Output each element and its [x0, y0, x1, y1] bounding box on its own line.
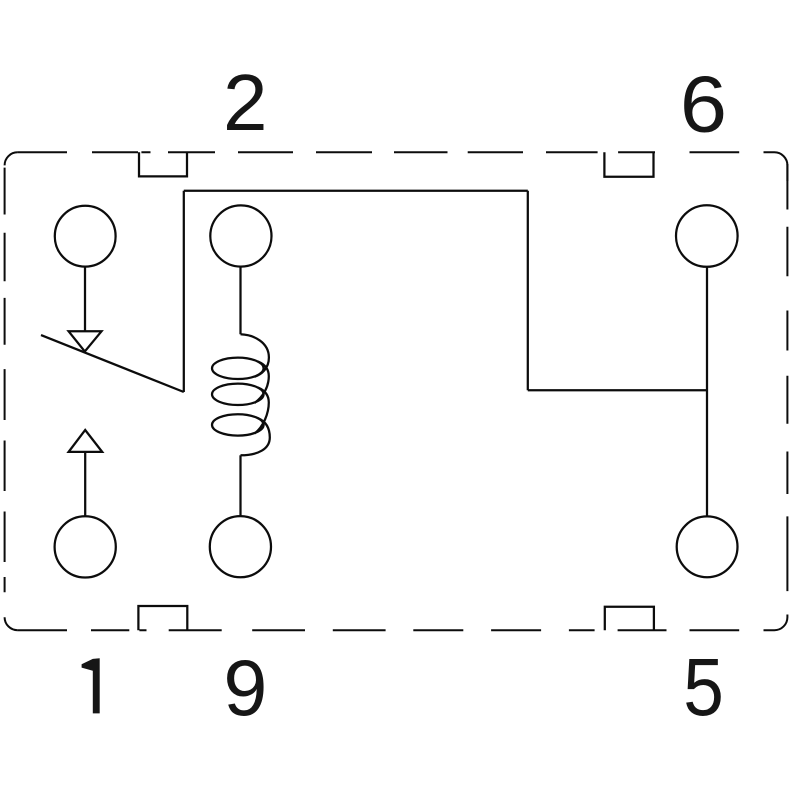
- relay outline dashed border: right edge dashes: [786, 164, 788, 591]
- coil loop 3: [212, 414, 264, 435]
- pin circle 5: [677, 516, 738, 577]
- wire: right vertical pin6 to pin5: [706, 267, 708, 517]
- arrow up (NO contact): [69, 430, 103, 452]
- arrow down (NC contact): [69, 331, 102, 351]
- relay outline dashed border: bottom edge dashes: [18, 629, 740, 631]
- relay outline dashed border: left edge dashes: [4, 168, 6, 593]
- wire: top horizontal: [184, 190, 528, 192]
- svg-text:5: 5: [683, 642, 724, 733]
- pin circle 9 (coil bottom): [210, 516, 271, 577]
- pin circle 2 (coil top): [210, 205, 271, 266]
- switch armature diagonal: [41, 335, 184, 392]
- pin circle 1: [55, 516, 116, 577]
- coil exit curve: [241, 418, 270, 455]
- svg-text:6: 6: [680, 59, 727, 148]
- coil entry curve: [241, 334, 269, 377]
- wire: stem below top-left circle: [84, 267, 86, 332]
- relay outline dashed border: corner arcs: [5, 152, 788, 630]
- wire: middle vertical: [527, 191, 529, 390]
- wire: stem above pin1 circle: [84, 452, 86, 516]
- svg-text:9: 9: [223, 643, 267, 732]
- top-left mounting notch: [139, 152, 187, 176]
- pin circle top-left (common): [55, 206, 116, 267]
- svg-text:2: 2: [223, 58, 267, 147]
- wire: switch pole vertical: [183, 191, 185, 392]
- coil loop 2: [212, 384, 264, 405]
- coil connector 1: [255, 362, 269, 403]
- coil connector 2: [255, 388, 269, 434]
- bottom-left mounting notch: [138, 606, 187, 630]
- coil loop 1: [212, 358, 264, 379]
- pin label 1: [82, 658, 100, 713]
- wire: coil bottom stem: [239, 455, 241, 516]
- wire: coil top stem: [239, 267, 241, 335]
- top-right mounting notch: [604, 152, 653, 177]
- bottom-right mounting notch: [605, 607, 654, 631]
- wire: lower horizontal to contact: [528, 389, 707, 391]
- pin circle 6: [676, 205, 738, 267]
- relay outline dashed border: top edge dashes: [18, 151, 740, 153]
